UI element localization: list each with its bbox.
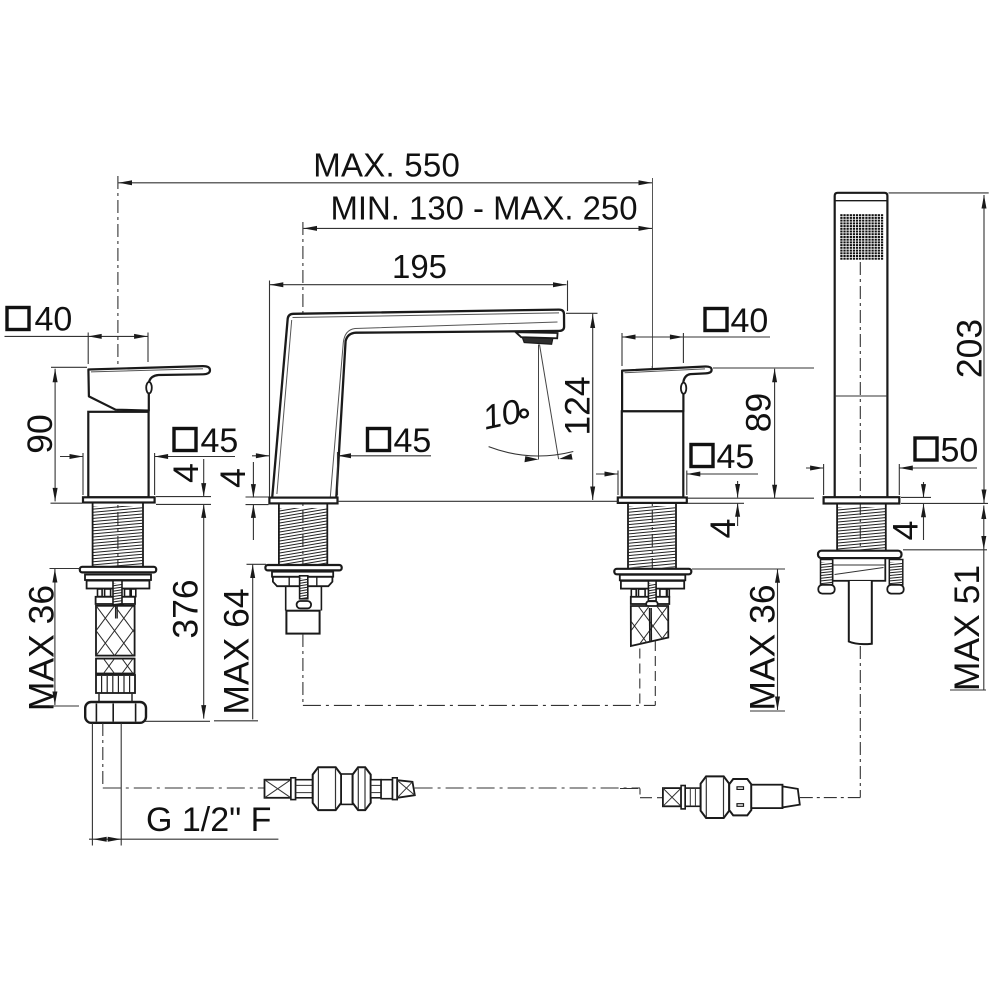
hand shower lock ring (818, 551, 902, 558)
svg-text:MAX. 550: MAX. 550 (313, 146, 460, 183)
left valve deck flange (83, 497, 155, 502)
right valve deck flange (618, 498, 687, 503)
left valve dim4 ext lines (156, 496, 211, 498)
spout centerline (302, 222, 304, 575)
connector1 right hose block (397, 780, 415, 798)
connector1 neck (341, 774, 352, 804)
dimension MAX36 left ext (50, 568, 81, 570)
left valve centerline (117, 176, 119, 569)
hand shower dim square50 symbol (915, 438, 937, 460)
left valve body (88, 412, 148, 498)
svg-text:MAX 51: MAX 51 (947, 565, 987, 691)
connector1 right collar (393, 778, 398, 800)
spout clamp screw (300, 576, 308, 599)
left valve braided hose upper (96, 606, 135, 656)
spout inner thin line lower (330, 322, 557, 497)
left valve clamp screw (113, 581, 122, 606)
dimension MAX51 end tick (950, 689, 986, 691)
right valve hose dashes (639, 649, 641, 706)
hand shower threaded shank (836, 504, 838, 552)
svg-text:4: 4 (886, 521, 926, 541)
dimension G1/2 line (89, 838, 278, 840)
deck line middle (338, 500, 618, 502)
left valve dim square45 symbol (174, 429, 196, 451)
dimension 203 top ext (889, 192, 989, 194)
right valve dim 45 line right (687, 473, 758, 475)
right valve handle lever (622, 366, 712, 411)
right valve bracket tabs (631, 589, 636, 597)
svg-text:MAX 36: MAX 36 (743, 584, 783, 710)
connector2 ribs (685, 788, 700, 806)
left valve lower bracket (96, 597, 135, 604)
connector1 axis dash (103, 787, 264, 789)
hand shower centerline (859, 262, 861, 552)
right valve extension line (652, 178, 654, 366)
extension line spout left edge (269, 281, 271, 497)
left valve handle button (146, 382, 152, 393)
connector1 right band (381, 780, 392, 799)
dimension MAX. 550 line (119, 182, 653, 184)
hand shower dim 4 arrows (923, 482, 925, 498)
left valve dim 4 and 376 line (203, 459, 205, 497)
left valve dim40 ext lines (87, 333, 89, 365)
hand shower pipe (849, 581, 872, 644)
spout outlet dash line (302, 634, 304, 705)
svg-text:376: 376 (166, 579, 206, 638)
left valve handle lever (88, 366, 210, 411)
dimension 89 line (774, 369, 776, 499)
dimension 90 ext lines (51, 366, 87, 368)
left valve dim square40 symbol (7, 308, 29, 330)
right valve dim40 ext lines (621, 333, 623, 366)
left valve mounting ring2 (85, 575, 151, 580)
right valve dim 45 line left (596, 473, 618, 475)
connector2 hex nut (701, 776, 730, 818)
left valve bracket (87, 581, 150, 589)
hand shower dim 50 line right (899, 467, 977, 469)
hand shower dim 50 line left (806, 467, 824, 469)
hand shower deck flange (824, 497, 900, 503)
dimension MAX 64 line (252, 565, 254, 720)
svg-text:40: 40 (731, 302, 769, 340)
left valve hose rib coupling (96, 675, 135, 693)
dimension 89 bottom ext (688, 497, 814, 499)
dimension 203 line (983, 195, 985, 503)
spout tailpiece sides (285, 586, 287, 610)
dimension 195 line (270, 284, 567, 286)
right valve mounting ring2 (620, 575, 686, 581)
hand shower right screw (889, 560, 903, 585)
svg-text:40: 40 (35, 301, 73, 339)
left valve hose nut (85, 702, 146, 723)
angle arc 10deg (489, 447, 574, 456)
spout dim 45 line right (338, 455, 432, 457)
left valve handle inner line (91, 369, 203, 372)
right valve hose braided (631, 606, 669, 646)
right valve dim45 ext lines (617, 471, 619, 496)
hand shower bracket housing (833, 558, 886, 581)
svg-text:124: 124 (558, 376, 598, 435)
hand shower left screw (821, 560, 833, 585)
dimension MAX36 right ext (692, 568, 785, 570)
hand shower dim4 upper ext (901, 496, 931, 498)
connector2 axis dash (620, 788, 640, 790)
spout dim 4 and MAX64 arrows (252, 462, 254, 498)
dimension 124 line (592, 314, 594, 501)
left valve dim45 ext lines (82, 453, 84, 495)
spout threaded shank (278, 503, 280, 565)
spout dim square45 symbol (368, 429, 390, 451)
svg-text:10: 10 (479, 392, 524, 437)
right valve lower bracket (631, 597, 670, 604)
right valve bracket (621, 581, 684, 589)
spout body outline (272, 310, 564, 498)
left valve G thread lines (91, 723, 93, 846)
left valve hose neck (98, 694, 100, 702)
dimension MAX 36 left line (54, 569, 56, 705)
svg-text:45: 45 (717, 438, 755, 476)
left valve hose band (96, 658, 135, 660)
dimension MAX51 ext (903, 549, 987, 551)
left valve dim 40 line (5, 335, 149, 337)
connector1 left hose block (265, 780, 291, 798)
svg-text:45: 45 (394, 422, 432, 460)
right valve centerline (651, 366, 653, 568)
dimension 89 top ext (713, 367, 814, 369)
svg-text:45: 45 (201, 422, 239, 460)
connector2 collar (681, 786, 685, 809)
spout mounting ring2 (272, 572, 333, 577)
right valve handle button (681, 383, 686, 394)
spout lock ring (265, 565, 341, 570)
connector1 left collar (291, 778, 296, 800)
dimension MAX 51 line (983, 506, 985, 691)
left valve threaded shank (92, 503, 94, 567)
svg-text:4: 4 (703, 519, 743, 539)
right valve clamp screw (648, 581, 656, 601)
connector2 left dash (640, 797, 662, 799)
connector2 taper tip (783, 786, 800, 807)
right valve dim4 lower ext (688, 502, 744, 504)
left valve hose axis dash (102, 723, 104, 788)
svg-text:50: 50 (941, 432, 979, 470)
right valve threaded shank (627, 503, 629, 568)
spout dim4 ext lines (246, 496, 269, 498)
right valve dim 4 arrows (737, 481, 739, 498)
dimension MIN line (304, 227, 653, 229)
spout aerator (516, 332, 558, 338)
right valve dim square40 symbol (705, 309, 727, 331)
connector2 union nut (729, 779, 751, 815)
connector1 hex nut B (353, 767, 371, 810)
svg-text:195: 195 (392, 248, 447, 285)
water stream angled line (540, 345, 559, 460)
connector1 right ribs (371, 780, 381, 798)
spout inner thin line left (277, 320, 292, 494)
left valve bracket tabs (98, 589, 103, 597)
svg-text:4: 4 (213, 468, 253, 488)
dimension 124 top ext (566, 312, 598, 314)
left valve braided hose lower (96, 659, 135, 674)
spout deck flange (269, 498, 337, 504)
hand shower dim50 ext lines (823, 464, 825, 495)
connector2 body (751, 785, 782, 808)
connector1 hex nut A (313, 767, 342, 810)
right valve body (622, 411, 684, 497)
spout dim45 right ext (337, 452, 339, 495)
spout dim 45 line left (252, 455, 269, 457)
svg-text:MAX 64: MAX 64 (217, 588, 257, 714)
spout tailpiece block (286, 611, 319, 634)
connector2 left hose block (663, 788, 681, 806)
left valve dim 45 line left (60, 456, 83, 458)
svg-text:MIN. 130 - MAX. 250: MIN. 130 - MAX. 250 (331, 190, 638, 227)
connector1 left ribs (296, 780, 313, 798)
right valve handle inner line (625, 369, 706, 373)
deck ext line shower (901, 502, 988, 504)
dimension MAX 36 right line (777, 569, 779, 710)
left valve dim 45 line right (155, 456, 235, 458)
right valve lock ring (614, 569, 691, 575)
extension line spout right tip (567, 281, 569, 312)
hand shower spray face dots (840, 214, 842, 216)
dimension 376 bottom ext (135, 720, 210, 722)
hand shower cap line (835, 200, 888, 202)
hand shower hose dash (859, 646, 861, 798)
svg-text:90: 90 (20, 414, 60, 454)
left valve lock ring (80, 567, 156, 573)
hand shower head outline (835, 193, 888, 497)
dimension 90 line (54, 369, 56, 502)
dimension MAX64 top ext (247, 563, 267, 565)
svg-text:4: 4 (166, 463, 206, 483)
svg-text:89: 89 (739, 393, 779, 433)
water stream vertical ref (538, 345, 540, 460)
dimension MAX64/376 bottom ext (214, 720, 258, 722)
spout mounting nut (273, 577, 333, 586)
svg-text:G 1/2" F: G 1/2" F (146, 801, 271, 839)
hand shower seam (835, 395, 888, 397)
right valve dim square45 symbol (691, 445, 713, 467)
right valve dim 40 line (622, 336, 770, 338)
spout inner thin line top (293, 313, 560, 318)
